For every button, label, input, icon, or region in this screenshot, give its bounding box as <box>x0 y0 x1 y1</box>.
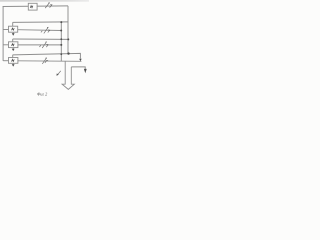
svg-text:Фиг 2: Фиг 2 <box>37 91 47 96</box>
